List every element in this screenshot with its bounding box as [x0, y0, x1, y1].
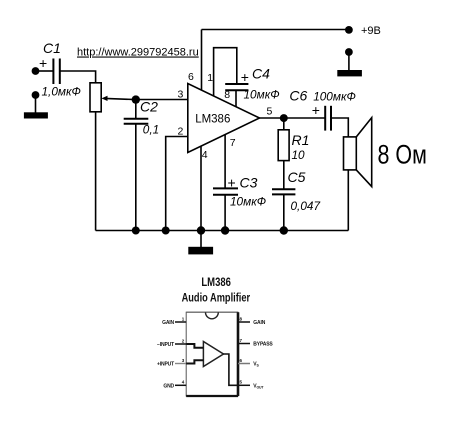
ground (input)	[24, 98, 48, 119]
junction dot (pin2 / rail)	[162, 227, 170, 235]
ground (main)	[188, 234, 213, 254]
pin 5 stub (Vout)	[238, 384, 250, 386]
junction dot (C5 / rail)	[280, 226, 288, 234]
svg-text:+: +	[39, 55, 47, 71]
pin 4 stub (GND)	[175, 384, 186, 386]
pin 1 stub (GAIN left)	[175, 321, 186, 323]
svg-text:10мкФ: 10мкФ	[230, 195, 266, 209]
wire (junction down to C2)	[135, 100, 137, 119]
svg-text:0,047: 0,047	[291, 199, 321, 213]
wire (junction to C6)	[284, 117, 325, 119]
svg-text:http://www.299792458.ru: http://www.299792458.ru	[77, 47, 199, 59]
capacitor C6	[325, 106, 331, 131]
wire (C6 to speaker)	[330, 118, 348, 137]
wiper arrow of potentiometer	[101, 96, 135, 101]
wire (C2 to bottom rail)	[135, 124, 137, 231]
wire (C3 to rail)	[224, 195, 226, 231]
IC body DIP-8	[186, 312, 238, 396]
svg-text:3: 3	[178, 88, 184, 100]
svg-text:LM386: LM386	[201, 277, 231, 289]
wire (pin 2 hook)	[166, 137, 188, 231]
svg-text:+: +	[312, 102, 320, 118]
svg-text:8 Ом: 8 Ом	[378, 140, 427, 170]
svg-text:C5: C5	[288, 169, 306, 185]
pin 5 wire (output)	[260, 117, 284, 119]
svg-text:+9В: +9В	[361, 25, 381, 37]
svg-text:0,1: 0,1	[143, 123, 159, 137]
node +9V terminal	[345, 26, 353, 34]
pin 6 wire (to +9V rail)	[201, 30, 203, 91]
wire +9V top rail	[202, 29, 349, 31]
svg-text:C2: C2	[140, 99, 158, 115]
svg-text:+INPUT: +INPUT	[157, 362, 174, 368]
pin 2 stub (-INPUT)	[175, 343, 186, 345]
pin 4 wire	[200, 146, 202, 230]
svg-text:8: 8	[224, 89, 230, 101]
wire bottom ground rail	[96, 230, 349, 232]
wire	[38, 70, 53, 72]
wire (junction to R1)	[283, 118, 285, 130]
svg-text:C4: C4	[252, 66, 270, 82]
svg-text:100мкФ: 100мкФ	[313, 90, 356, 104]
pin 1 hook wire	[214, 48, 237, 96]
capacitor C5	[272, 189, 295, 194]
pin 3 stub (+INPUT)	[175, 363, 186, 365]
svg-text:4: 4	[202, 149, 208, 161]
wire (pot bottom to bottom rail)	[95, 112, 97, 231]
pin 7 wire	[224, 135, 226, 189]
wire (to pin 3)	[136, 99, 188, 101]
junction dot (pin4 / rail)	[197, 226, 205, 234]
op-amp symbol (inside DIP)	[203, 342, 223, 367]
svg-text:10мкФ: 10мкФ	[244, 87, 280, 101]
svg-text:+: +	[228, 175, 236, 191]
pin 8 stub (GAIN right)	[238, 321, 250, 323]
svg-text:C3: C3	[240, 174, 258, 190]
notch	[206, 312, 219, 318]
capacitor C4	[225, 84, 248, 90]
svg-text:10: 10	[292, 148, 306, 162]
svg-text:LM386: LM386	[195, 114, 230, 126]
svg-text:C1: C1	[43, 40, 61, 56]
svg-text:GAIN: GAIN	[253, 320, 265, 326]
capacitor C1	[53, 59, 59, 85]
wire +input jog	[186, 360, 203, 363]
svg-text:6: 6	[188, 71, 194, 83]
svg-text:7: 7	[230, 137, 236, 149]
svg-text:1: 1	[207, 72, 213, 84]
ground (supply)	[337, 55, 362, 76]
wire (R1 to C5)	[283, 161, 285, 189]
op-amp U1 LM386	[188, 84, 260, 153]
wire	[60, 71, 96, 83]
node supply ground terminal	[345, 48, 353, 56]
node OUT junction	[280, 114, 288, 122]
wire (C5 to rail)	[283, 194, 285, 230]
svg-text:C6: C6	[289, 88, 307, 104]
wire -input jog	[186, 344, 203, 348]
wire (speaker to rail)	[347, 170, 349, 231]
svg-text:GND: GND	[163, 383, 174, 389]
pin 7 stub (BYPASS)	[238, 343, 250, 345]
svg-text:−INPUT: −INPUT	[157, 342, 174, 348]
speaker LS1	[344, 118, 372, 187]
pin 8 wire (C4 to triangle)	[235, 90, 237, 106]
junction dot (C2 / rail)	[132, 227, 140, 235]
svg-text:+: +	[241, 69, 249, 85]
capacitor C3	[213, 188, 238, 194]
svg-text:GAIN: GAIN	[162, 320, 174, 326]
svg-text:2: 2	[178, 126, 184, 138]
potentiometer R (volume)	[90, 83, 101, 112]
wire output to pin 5	[224, 354, 239, 385]
svg-text:R1: R1	[292, 132, 310, 148]
node GND-IN (input ground terminal)	[32, 91, 40, 99]
svg-text:Audio Amplifier: Audio Amplifier	[182, 291, 251, 305]
junction dot (C3 / rail)	[221, 226, 229, 234]
svg-text:BYPASS: BYPASS	[253, 342, 273, 348]
resistor R1	[278, 130, 289, 161]
node IN (input terminal)	[32, 67, 40, 75]
svg-text:5: 5	[267, 105, 273, 117]
svg-text:1,0мкФ: 1,0мкФ	[42, 84, 81, 98]
capacitor C2	[124, 119, 149, 124]
pin 6 stub (Vs)	[238, 363, 250, 365]
node A (junction pin3 / C2 / wiper)	[132, 95, 140, 103]
